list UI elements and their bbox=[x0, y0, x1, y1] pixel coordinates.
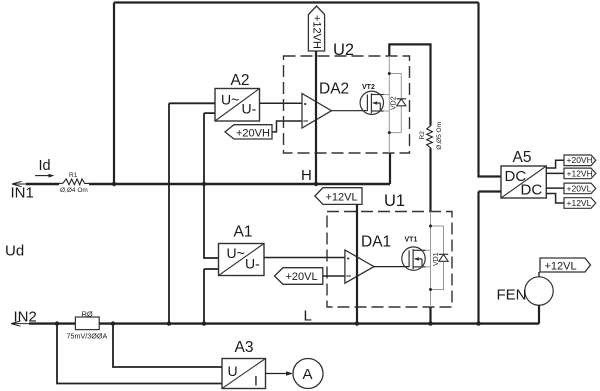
wire VT2 drain up and over to R2 bbox=[389, 44, 430, 125]
junction dot H at x=204 bbox=[202, 182, 206, 186]
arrow Id current direction bbox=[35, 175, 50, 177]
flag +12VH (top, pointing up) bbox=[308, 6, 324, 51]
flag +20VH bbox=[225, 125, 272, 139]
svg-text:+12VL: +12VL bbox=[567, 198, 592, 208]
wire R2 bottom down to U1 bbox=[429, 148, 431, 211]
node dot VT1 drain bbox=[429, 225, 432, 228]
wire fan to L line bbox=[538, 305, 540, 323]
junction dot L at x=57 bbox=[55, 321, 59, 325]
svg-text:U-: U- bbox=[245, 256, 260, 272]
svg-text:A5: A5 bbox=[513, 149, 532, 166]
wire IN1 to R1 bbox=[26, 183, 59, 185]
ammeter A bbox=[293, 359, 323, 389]
diode VD1 bbox=[439, 254, 448, 261]
junction dot H at x=315.5 bbox=[314, 182, 318, 186]
svg-text:75mV/3ØØA: 75mV/3ØØA bbox=[67, 331, 108, 340]
wire A2 input 2 vertical x=204 from A2 via H-line dot to A1 input 1 bbox=[204, 113, 219, 258]
svg-text:U2: U2 bbox=[333, 41, 354, 59]
wire L line from R0 to right end bbox=[99, 322, 539, 324]
flag +20VL output bbox=[564, 183, 596, 194]
wire A3 input 1 from shunt right bbox=[113, 324, 222, 367]
flag +20VL bbox=[275, 268, 323, 285]
flag +12VH output bbox=[564, 168, 596, 179]
svg-text:VD2: VD2 bbox=[391, 96, 398, 110]
svg-text:U: U bbox=[228, 363, 238, 379]
wire A5 output 1 bbox=[546, 160, 564, 168]
svg-text:A3: A3 bbox=[235, 339, 254, 356]
flag +12VL output bbox=[564, 198, 596, 209]
diode VD2 bbox=[397, 99, 406, 106]
svg-text:IN1: IN1 bbox=[11, 185, 34, 202]
junction dot L at x=478.5 bbox=[476, 321, 480, 325]
U1 dashed box bbox=[327, 212, 452, 308]
svg-text:H: H bbox=[301, 167, 312, 184]
resistor R0 shunt box bbox=[75, 317, 99, 330]
wire A3 input 2 from shunt left bbox=[57, 324, 222, 384]
svg-text:R2: R2 bbox=[419, 131, 426, 140]
wire A2 input 1 vertical x=169 from A2 down to L bbox=[169, 103, 215, 323]
svg-text:+12VH: +12VH bbox=[310, 15, 322, 49]
wire DA1 output to VT1 gate bbox=[374, 266, 409, 268]
wire H line turn up into U2 (VT2 source) bbox=[389, 153, 391, 184]
junction dot L at x=113 bbox=[111, 321, 115, 325]
converter A1 bbox=[219, 244, 265, 276]
flag +12VL (U1 supply) bbox=[315, 188, 362, 205]
svg-text:FEN: FEN bbox=[497, 287, 527, 304]
junction dot L at x=357 bbox=[355, 321, 359, 325]
svg-text:+12VH: +12VH bbox=[567, 168, 593, 178]
junction dot H at x=114 bbox=[112, 182, 116, 186]
wire A1 output to DA1 bbox=[264, 257, 345, 259]
svg-text:+20VH: +20VH bbox=[236, 127, 270, 139]
svg-text:U~: U~ bbox=[221, 92, 239, 108]
svg-text:Ø,Ø5 Om: Ø,Ø5 Om bbox=[436, 122, 443, 150]
svg-text:+12VL: +12VL bbox=[326, 191, 358, 203]
wire A5 output 4 bbox=[546, 194, 564, 204]
svg-text:U~: U~ bbox=[227, 245, 245, 261]
converter A2 bbox=[215, 89, 260, 122]
wire top bus from node above IN1 to A5 input bbox=[114, 1, 479, 3]
svg-text:+20VL: +20VL bbox=[567, 183, 592, 193]
svg-text:DC: DC bbox=[521, 182, 543, 199]
wire VD1 loop bbox=[431, 226, 444, 290]
wire A1 input 2 vertical x=204 down to L bbox=[204, 269, 219, 324]
wire +12VH supply down through DA2 to H line bbox=[315, 51, 317, 184]
svg-text:U-: U- bbox=[242, 101, 257, 117]
wire vertical x=114 down to H line bbox=[113, 3, 115, 185]
svg-text:Ud: Ud bbox=[5, 243, 24, 260]
node dot VT1 source bbox=[429, 288, 432, 291]
svg-text:+20VL: +20VL bbox=[286, 271, 318, 283]
wire A5 output 3 bbox=[546, 187, 564, 189]
op-amp DA2 bbox=[302, 94, 332, 129]
wire VD2 loop bbox=[389, 74, 401, 133]
converter A3 bbox=[222, 359, 266, 389]
op-amp DA1 bbox=[345, 250, 374, 283]
wire VT2 drain/source leads to node column (gray) bbox=[384, 95, 390, 112]
wire H line from R1 to right end bbox=[89, 183, 390, 185]
converter A5 DC/DC bbox=[501, 166, 546, 199]
node dot VT2 drain bbox=[388, 72, 391, 75]
junction dot L at x=204 bbox=[202, 321, 206, 325]
wire A3 output arrow to ammeter bbox=[266, 373, 288, 375]
flag +20VH output bbox=[564, 155, 596, 166]
svg-text:U1: U1 bbox=[384, 192, 405, 210]
wire A5 input 2 from L line bbox=[479, 192, 502, 324]
wire VT1 leads to node column (gray) bbox=[426, 250, 431, 267]
svg-text:L: L bbox=[304, 308, 312, 325]
svg-text:I: I bbox=[254, 373, 258, 389]
wire gray node column in U1 bbox=[430, 212, 432, 308]
transistor VT1 bbox=[402, 247, 426, 270]
node IN1 arrow bbox=[12, 181, 27, 186]
wire vertical x=478.5 down to A5 input 1 bbox=[479, 3, 502, 177]
svg-text:VT2: VT2 bbox=[362, 84, 375, 91]
flag +12VL (fan supply) bbox=[540, 258, 591, 272]
svg-text:A: A bbox=[303, 366, 313, 383]
wire IN2 to R0 bbox=[29, 322, 75, 324]
junction dot L at x=430.5 bbox=[428, 321, 432, 325]
svg-text:Id: Id bbox=[39, 158, 51, 174]
wire VT1 source down to L bbox=[429, 307, 431, 324]
resistor R2 zigzag (vertical) bbox=[427, 125, 433, 148]
wire gray node column in U2 bbox=[388, 56, 390, 153]
U2 dashed box bbox=[284, 56, 410, 153]
wire A2 output to DA2 bbox=[260, 102, 303, 104]
wire +20VL flag to DA1 inverting input bbox=[323, 275, 345, 277]
wire +20VH flag to DA2 inverting input bbox=[272, 121, 302, 132]
svg-text:RØ: RØ bbox=[82, 309, 93, 318]
svg-text:+20VH: +20VH bbox=[567, 155, 593, 165]
fan FEN bbox=[525, 277, 553, 305]
svg-text:VT1: VT1 bbox=[405, 237, 418, 244]
transistor VT2 bbox=[360, 91, 384, 114]
svg-text:Ø,Ø4 Om: Ø,Ø4 Om bbox=[60, 187, 88, 194]
junction dot L at x=169 bbox=[167, 321, 171, 325]
wire +12VL supply down through DA1 to L line bbox=[356, 204, 358, 323]
svg-text:DA2: DA2 bbox=[319, 80, 349, 97]
node dot VT2 source bbox=[388, 131, 391, 134]
svg-text:VD1: VD1 bbox=[433, 252, 440, 266]
svg-text:+12VL: +12VL bbox=[545, 260, 577, 272]
svg-text:R1: R1 bbox=[69, 172, 78, 179]
resistor R1 zigzag bbox=[63, 179, 89, 185]
wire flag to fan bbox=[538, 272, 540, 278]
svg-text:A1: A1 bbox=[234, 224, 253, 241]
wire DA2 output to VT2 gate bbox=[332, 110, 368, 112]
wire A5 output 2 bbox=[546, 172, 564, 174]
svg-text:A2: A2 bbox=[231, 72, 250, 89]
node IN2 arrow bbox=[11, 321, 30, 326]
svg-text:DA1: DA1 bbox=[361, 233, 391, 250]
